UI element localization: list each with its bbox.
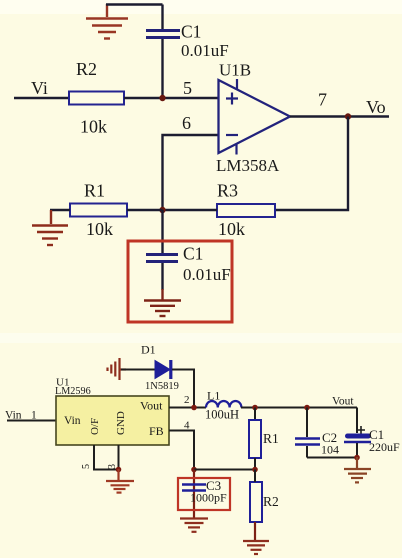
svg-text:7: 7	[318, 90, 327, 110]
wire feedback from Vo down to R3	[275, 117, 348, 211]
svg-text:GND: GND	[115, 411, 127, 435]
svg-text:Vi: Vi	[31, 78, 48, 98]
svg-text:R2: R2	[76, 59, 97, 79]
capacitor C2	[295, 408, 339, 458]
highlight box (red) around lower C1	[128, 241, 232, 322]
svg-text:0.01uF: 0.01uF	[181, 41, 229, 60]
inductor L1	[205, 389, 241, 422]
resistor R1	[70, 181, 127, 240]
wire Vi input	[14, 97, 69, 100]
svg-text:4: 4	[184, 420, 190, 432]
capacitor C1 (top)	[146, 5, 229, 98]
svg-text:5: 5	[183, 78, 192, 98]
svg-text:Vout: Vout	[140, 399, 163, 413]
svg-text:6: 6	[182, 113, 191, 133]
ground (below U1)	[106, 469, 134, 493]
svg-text:C1: C1	[181, 22, 201, 42]
svg-text:5: 5	[81, 464, 92, 469]
junction node (FB/C3)	[191, 467, 197, 473]
svg-text:R3: R3	[217, 181, 238, 201]
resistor R2 (bottom)	[250, 470, 279, 541]
svg-text:LM2596: LM2596	[55, 386, 91, 397]
junction node (R1 top)	[252, 405, 258, 411]
capacitor C1 (lower, inside red box)	[146, 244, 231, 301]
wire Vin input	[7, 420, 56, 422]
svg-text:10k: 10k	[86, 219, 113, 239]
junction node (C1 ground)	[354, 455, 360, 461]
wire R3 to center junction	[163, 209, 218, 211]
svg-text:10k: 10k	[218, 219, 245, 239]
ground (below R2)	[243, 541, 269, 554]
ground (top-left, dark red)	[86, 4, 128, 39]
svg-text:100uH: 100uH	[205, 408, 239, 422]
wire op-amp pin6 to feedback node	[163, 135, 220, 210]
capacitor C3	[182, 470, 227, 519]
svg-text:C1: C1	[183, 244, 203, 264]
resistor R3	[217, 181, 275, 240]
wire ground to D1 anode	[121, 369, 155, 371]
svg-text:U1B: U1B	[219, 61, 251, 80]
wire bottom pins of U1	[94, 445, 119, 470]
svg-text:R1: R1	[263, 431, 279, 446]
wire D1 cathode down to pin2 node	[172, 370, 194, 408]
ground (below C1 220uF)	[344, 457, 371, 482]
svg-text:10k: 10k	[80, 117, 107, 137]
wire L1 to Vout corner	[241, 407, 357, 409]
op-amp U1B	[216, 61, 290, 176]
junction node (U1 ground)	[116, 467, 122, 473]
wire R1 left to ground	[50, 209, 70, 211]
svg-text:Vin: Vin	[64, 415, 81, 427]
wire U1 pin4 FB	[169, 431, 194, 470]
highlight box (red) around C3	[178, 478, 230, 510]
svg-text:0.01uF: 0.01uF	[183, 265, 231, 284]
IC U1 LM2596	[55, 377, 169, 446]
svg-text:D1: D1	[141, 343, 156, 357]
svg-text:220uF: 220uF	[369, 440, 400, 454]
svg-text:L1: L1	[207, 389, 220, 403]
junction node Vo	[345, 113, 351, 119]
wire Vout corner down to C1	[356, 408, 358, 434]
junction node (R1/R2)	[252, 467, 258, 473]
svg-text:104: 104	[321, 443, 339, 457]
wire op-amp output	[290, 115, 389, 118]
svg-text:FB: FB	[149, 424, 164, 438]
svg-text:Vo: Vo	[366, 97, 386, 117]
wire from ground to C1 top	[106, 3, 163, 5]
capacitor C1 (220uF polarized)	[344, 426, 400, 458]
junction node (pin2/D1)	[191, 405, 197, 411]
junction node (feedback)	[159, 207, 165, 213]
junction node (C2 top)	[304, 405, 310, 411]
svg-text:R2: R2	[263, 494, 279, 509]
svg-text:1N5819: 1N5819	[145, 381, 179, 392]
ground (rotated, left of D1)	[108, 358, 127, 380]
ground (left of R1)	[32, 210, 68, 245]
svg-text:Vout: Vout	[332, 396, 354, 408]
junction node (+ input)	[159, 95, 165, 101]
ground (below C3)	[180, 519, 208, 532]
wire C2 bottom to C1 bottom	[307, 457, 357, 459]
wire R1 to junction	[127, 209, 163, 211]
wire FB node to R1/R2 junction	[194, 469, 255, 471]
svg-text:O/F: O/F	[89, 418, 101, 435]
svg-text:R1: R1	[84, 181, 105, 201]
wire junction down to lower C1	[161, 210, 163, 253]
wire R2 to op-amp pin5	[124, 97, 219, 99]
resistor R2	[69, 59, 124, 137]
diode D1 1N5819	[141, 343, 179, 393]
svg-text:LM358A: LM358A	[216, 156, 280, 175]
svg-text:1000pF: 1000pF	[190, 491, 227, 505]
wire U1 pin2 (Vout)	[169, 407, 206, 409]
svg-text:2: 2	[184, 394, 190, 406]
ground (inside red box)	[144, 301, 181, 317]
resistor R1 (bottom)	[249, 408, 279, 470]
